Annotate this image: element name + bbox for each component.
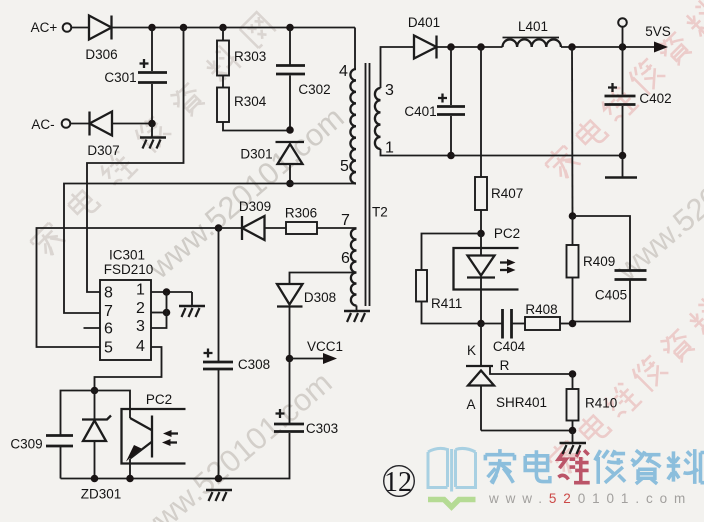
- svg-text:ZD301: ZD301: [81, 487, 122, 502]
- node D301 anode on drain line: [286, 180, 294, 188]
- svg-text:C303: C303: [306, 421, 338, 436]
- resistor R306: [265, 206, 357, 235]
- zener ZD301: [81, 391, 122, 502]
- watermark gray hanzi diagonal left: [27, 12, 276, 259]
- capacitor C404: [481, 309, 526, 354]
- IC pin 2 wire: [151, 312, 167, 314]
- IC301 FSD210: [100, 248, 153, 361]
- node D309 line C308: [215, 224, 223, 232]
- svg-text:C308: C308: [238, 357, 270, 372]
- svg-text:3: 3: [136, 318, 145, 335]
- node pin1: [163, 288, 171, 296]
- svg-text:www.520101.com: www.520101.com: [129, 365, 339, 522]
- node L401 out: [568, 43, 576, 51]
- node D401-C401: [447, 43, 455, 51]
- node C308 rail: [215, 475, 223, 483]
- svg-text:FSD210: FSD210: [104, 262, 154, 277]
- wire from rail down to AC- loop: [87, 28, 184, 293]
- capacitor C402: [605, 47, 672, 156]
- svg-text:4: 4: [339, 63, 348, 80]
- wire aux tap pin6 to D308: [290, 273, 357, 285]
- IC pin 6 stub: [84, 327, 101, 329]
- svg-text:C404: C404: [493, 339, 526, 354]
- svg-text:6: 6: [341, 250, 350, 267]
- VCC1 arrow: [290, 339, 344, 364]
- svg-text:2: 2: [136, 300, 145, 317]
- svg-text:1: 1: [136, 282, 145, 299]
- logo book icon: [428, 448, 476, 507]
- wire L401 node down to R409: [571, 47, 574, 216]
- node rail-down: [180, 24, 188, 32]
- capacitor C308: [203, 228, 270, 479]
- svg-text:D306: D306: [85, 47, 117, 62]
- node R407 PC2: [477, 230, 485, 238]
- svg-text:IC301: IC301: [109, 248, 145, 263]
- diode D301: [240, 142, 304, 184]
- svg-text:4: 4: [136, 338, 145, 355]
- svg-text:12: 12: [384, 467, 412, 498]
- optocoupler PC2 transistor box: [122, 409, 186, 464]
- svg-text:8: 8: [104, 285, 113, 302]
- svg-text:C405: C405: [595, 288, 627, 303]
- svg-text:R411: R411: [431, 296, 462, 311]
- wire bottom rail: [61, 478, 290, 480]
- wire AC- to D307: [70, 123, 89, 125]
- wire D401 to L401: [437, 46, 503, 48]
- node R410 top: [569, 370, 577, 378]
- circled 12: [384, 466, 415, 498]
- node PC2 rail: [126, 475, 134, 483]
- svg-text:D308: D308: [304, 290, 336, 305]
- AC+ terminal: [31, 20, 72, 35]
- svg-text:6: 6: [104, 321, 113, 338]
- ground at AC- node: [140, 124, 166, 149]
- watermark pink hanzi diagonal bottom-right: [545, 296, 704, 477]
- capacitor C401: [404, 47, 465, 156]
- svg-text:C402: C402: [639, 91, 671, 106]
- node rail-C302: [286, 24, 294, 32]
- svg-text:D401: D401: [408, 15, 440, 30]
- resistor R304: [217, 76, 290, 131]
- transformer secondary winding pins 3-1: [375, 47, 451, 157]
- svg-text:C301: C301: [104, 70, 136, 85]
- svg-text:L401: L401: [518, 19, 548, 34]
- resistor R410: [567, 374, 618, 431]
- svg-text:3: 3: [385, 82, 394, 99]
- shunt regulator SHR401: [466, 358, 573, 431]
- capacitor C303: [274, 359, 338, 479]
- wire drain line to pin7: [64, 184, 355, 314]
- capacitor C302: [276, 28, 331, 131]
- svg-text:PC2: PC2: [494, 226, 520, 241]
- node R304-C302-D301: [286, 126, 294, 134]
- watermark pink hanzi diagonal top-right: [542, 0, 704, 183]
- logo hanzi text: [485, 449, 704, 484]
- svg-text:D307: D307: [87, 143, 119, 158]
- resistor R407: [475, 47, 523, 234]
- node VCC1: [286, 355, 294, 363]
- capacitor C309: [10, 391, 94, 479]
- svg-text:1: 1: [385, 140, 394, 157]
- svg-text:7: 7: [341, 212, 350, 229]
- diode D307: [87, 112, 119, 159]
- resistor R411: [416, 234, 481, 324]
- svg-text:D301: D301: [240, 147, 272, 162]
- LED light arrows: [500, 259, 516, 274]
- IC pin 3 wire: [151, 292, 167, 328]
- ground bottom rail: [206, 490, 232, 501]
- node pin2: [163, 309, 171, 317]
- node ZD301 rail: [91, 475, 99, 483]
- PC2 phototransistor: [95, 391, 153, 479]
- svg-text:www.520101.com: www.520101.com: [488, 491, 692, 506]
- svg-text:T2: T2: [372, 205, 388, 220]
- capacitor C405: [573, 216, 647, 322]
- wire D307 to node: [112, 123, 152, 125]
- svg-text:A: A: [466, 397, 475, 412]
- svg-text:K: K: [467, 343, 476, 358]
- resistor R409: [567, 216, 616, 324]
- node D401-R407: [477, 43, 485, 51]
- svg-text:C401: C401: [404, 104, 436, 119]
- svg-text:PC2: PC2: [146, 392, 172, 407]
- svg-text:7: 7: [104, 303, 113, 320]
- optocoupler PC2 LED box: [454, 248, 519, 290]
- svg-text:SHR401: SHR401: [496, 395, 547, 410]
- 5VS terminal: [618, 18, 627, 47]
- resistor R408: [525, 302, 573, 330]
- diode D306: [85, 16, 117, 63]
- svg-text:D309: D309: [239, 199, 271, 214]
- svg-text:AC+: AC+: [31, 20, 58, 35]
- svg-text:C309: C309: [10, 437, 42, 452]
- svg-text:AC-: AC-: [31, 117, 54, 132]
- transformer T2 core: [366, 63, 388, 306]
- svg-text:R408: R408: [525, 302, 557, 317]
- transformer primary winding pins 4-5: [339, 28, 356, 184]
- LED of PC2: [467, 234, 495, 324]
- diode D309: [219, 199, 272, 240]
- ground aux winding bottom: [344, 306, 370, 323]
- svg-text:5: 5: [340, 158, 349, 175]
- node R408-R409-C405: [569, 320, 577, 328]
- svg-text:C302: C302: [298, 82, 330, 97]
- AC- terminal: [31, 117, 70, 132]
- 5VS arrow: [645, 24, 671, 53]
- node rail-R303: [219, 24, 227, 32]
- svg-text:R410: R410: [585, 396, 617, 411]
- node C402 rail: [619, 152, 627, 160]
- svg-text:www.520101.com: www.520101.com: [141, 100, 351, 286]
- svg-text:5VS: 5VS: [645, 24, 671, 39]
- node feedback: [91, 387, 99, 395]
- svg-text:R409: R409: [583, 254, 615, 269]
- wire AC+ to D306: [71, 27, 89, 29]
- svg-text:R306: R306: [285, 206, 317, 221]
- wire L401 to 5VS: [561, 46, 658, 48]
- svg-text:R: R: [500, 358, 510, 373]
- IC pin 1 wire: [151, 291, 192, 293]
- svg-text:5: 5: [104, 340, 113, 357]
- ground bar C402: [605, 156, 637, 178]
- PC2 light arrows: [162, 430, 178, 446]
- svg-text:R304: R304: [234, 94, 267, 109]
- IC pin 4 wire to feedback node: [95, 347, 162, 391]
- wire SHR K line: [480, 324, 482, 367]
- node R409 top: [569, 212, 577, 220]
- resistor R303: [217, 28, 266, 76]
- node C401 rail: [447, 152, 455, 160]
- diode D308: [277, 284, 336, 359]
- capacitor C301: [104, 28, 167, 124]
- node R410 bottom: [569, 427, 577, 435]
- inductor L401: [503, 19, 561, 47]
- svg-text:R303: R303: [234, 49, 266, 64]
- wire vcc line to pin5: [37, 228, 219, 347]
- node 5VS: [619, 43, 627, 51]
- transformer aux winding pins 7-6: [341, 212, 357, 306]
- node PC2 LED bottom: [477, 320, 485, 328]
- diode D401: [408, 15, 440, 59]
- node AC- C301: [148, 120, 156, 128]
- ground IC pins: [179, 292, 205, 317]
- wire top rail: [112, 27, 356, 29]
- svg-text:R407: R407: [491, 186, 523, 201]
- svg-text:VCC1: VCC1: [307, 339, 343, 354]
- ground R410: [560, 431, 587, 455]
- wire secondary rail: [451, 155, 623, 157]
- node rail-C301: [148, 24, 156, 32]
